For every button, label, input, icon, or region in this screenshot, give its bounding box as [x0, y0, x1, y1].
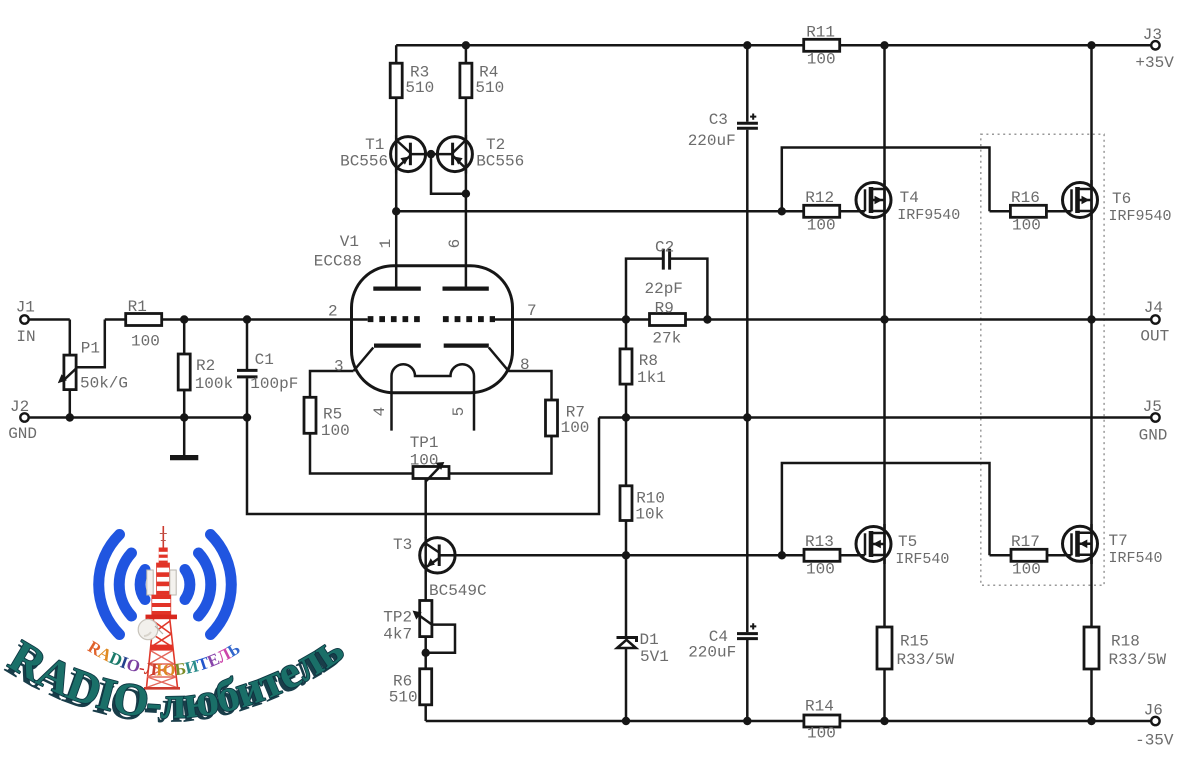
svg-text:IRF540: IRF540 [895, 551, 949, 568]
wire gate rail 2 [626, 554, 865, 557]
junction node gate1 R12 [778, 207, 786, 215]
wire C4 column [746, 418, 749, 722]
wire J1 stub [29, 318, 70, 321]
wire T6/T7 column [1090, 45, 1093, 721]
mosfet T5 IRF540 [840, 524, 891, 564]
svg-text:IRF9540: IRF9540 [1109, 208, 1172, 225]
wire gate rail 1 [396, 210, 865, 213]
capacitor C2 [663, 249, 669, 270]
svg-text:R1: R1 [128, 298, 147, 316]
tube anode plates [373, 287, 489, 291]
svg-text:T4: T4 [900, 189, 919, 207]
junction node top R4 [462, 41, 470, 49]
junction node T2 collector [462, 190, 470, 198]
junction node out T4T5 [880, 315, 888, 323]
svg-text:IRF9540: IRF9540 [897, 207, 960, 224]
wire TP2 to bottom rail [424, 637, 427, 721]
wire C1 column lower + GND detour [247, 378, 599, 514]
svg-text:510: 510 [389, 689, 418, 707]
svg-text:5V1: 5V1 [640, 648, 669, 666]
resistor R8 [620, 349, 632, 384]
junction node out R8 [622, 315, 630, 323]
junction node TP2 R6 [422, 649, 430, 657]
svg-text:TP2: TP2 [383, 609, 412, 627]
resistor R16 [1010, 205, 1046, 217]
resistor R7 [546, 400, 558, 436]
svg-text:4: 4 [371, 407, 389, 417]
terminal J5 [1151, 413, 1159, 421]
svg-text:8: 8 [520, 356, 530, 374]
resistor R6 [420, 669, 432, 705]
resistor R13 [804, 549, 840, 561]
wire R2 column + ground stub [183, 320, 186, 456]
svg-text:100: 100 [807, 725, 836, 743]
resistor R5 [304, 397, 316, 433]
capacitor C4 [737, 634, 758, 639]
svg-text:OUT: OUT [1140, 328, 1169, 346]
svg-text:100: 100 [410, 452, 439, 470]
wire cathode diagonal right [489, 348, 509, 372]
junction node bot R15 [880, 717, 888, 725]
junction node gnd P1 [66, 413, 74, 421]
svg-text:V1: V1 [340, 233, 359, 251]
svg-text:100: 100 [807, 51, 836, 69]
svg-text:IRF540: IRF540 [1109, 550, 1163, 567]
svg-text:R12: R12 [805, 189, 834, 207]
junction node gate2 D1 [622, 551, 630, 559]
potentiometer P1 [64, 355, 76, 390]
wire C1 column upper [246, 320, 249, 370]
svg-text:J6: J6 [1144, 702, 1163, 720]
wire gate2 over-line to T7 [782, 463, 990, 555]
svg-text:R9: R9 [655, 300, 674, 318]
svg-text:ECC88: ECC88 [314, 253, 362, 271]
junction node gate2 R13 [778, 551, 786, 559]
junction node bot R18 [1087, 717, 1095, 725]
junction node out R2 [180, 315, 188, 323]
svg-text:7: 7 [527, 302, 537, 320]
junction node gnd C3C4 [743, 413, 751, 421]
svg-text:J5: J5 [1143, 398, 1162, 416]
terminal J1 [20, 315, 28, 323]
wire C3 column [746, 45, 749, 417]
svg-text:100: 100 [1012, 217, 1041, 235]
wire R8/R10 column [625, 320, 628, 638]
svg-text:BC556: BC556 [476, 153, 524, 171]
wire top +35V rail [396, 44, 1151, 47]
svg-text:T3: T3 [393, 536, 412, 554]
LOGO: radio tower [138, 526, 180, 688]
wire R17 to T7 gate [990, 554, 1072, 557]
transistor T1 [391, 135, 426, 174]
svg-text:100: 100 [561, 419, 590, 437]
svg-text:R17: R17 [1011, 533, 1040, 551]
terminal J4 [1151, 315, 1159, 323]
resistor R12 [804, 205, 840, 217]
svg-text:GND: GND [8, 425, 37, 443]
svg-text:-35V: -35V [1135, 732, 1174, 750]
svg-text:R16: R16 [1011, 189, 1040, 207]
trimmer TP2 [420, 601, 432, 637]
wire GND rail left [29, 416, 247, 419]
junction node gate1 pin1 [392, 207, 400, 215]
svg-text:J2: J2 [10, 398, 29, 416]
ground bar symbol [170, 455, 198, 460]
dotted selection box around T6/R16/T7/R17 [981, 134, 1104, 585]
wire cathode diagonal left [354, 348, 374, 372]
transistor T2 [437, 135, 472, 174]
svg-text:1k1: 1k1 [637, 369, 666, 387]
svg-text:1: 1 [377, 239, 395, 249]
svg-text:100: 100 [321, 422, 350, 440]
resistor R11 [804, 39, 840, 51]
zener diode D1 [617, 638, 637, 643]
junction node top C3 [743, 41, 751, 49]
terminal J6 [1151, 717, 1159, 725]
svg-text:P1: P1 [81, 340, 100, 358]
svg-text:R33/5W: R33/5W [897, 651, 955, 669]
svg-text:T2: T2 [486, 136, 505, 154]
wire input rail to tube grid [105, 318, 368, 321]
wire TP1 wiper drop to T3 [424, 479, 427, 539]
wire gate1 over-line to T6 [782, 148, 990, 212]
svg-text:2: 2 [328, 303, 338, 321]
LOGO: radio waves blue arcs [99, 535, 232, 635]
svg-text:R14: R14 [805, 698, 834, 716]
svg-text:50k/G: 50k/G [80, 375, 128, 393]
svg-text:100: 100 [806, 561, 835, 579]
svg-text:C2: C2 [655, 239, 674, 257]
junction node bot D1 [622, 717, 630, 725]
wire below D1 [625, 648, 628, 721]
svg-text:100k: 100k [195, 375, 233, 393]
wire R7 pin8 loop [449, 371, 552, 474]
svg-text:TP1: TP1 [410, 434, 439, 452]
svg-text:R18: R18 [1111, 633, 1140, 651]
wire T1/T2 base tie [410, 153, 452, 156]
svg-text:27k: 27k [652, 330, 681, 348]
svg-text:R15: R15 [900, 633, 929, 651]
wire R16 to T6 gate [990, 210, 1072, 213]
wire R5 pin3 loop [310, 371, 413, 474]
junction node out T6T7 [1087, 315, 1095, 323]
junction node out C1 [243, 315, 251, 323]
junction node top T6 [1087, 41, 1095, 49]
svg-text:C1: C1 [255, 351, 274, 369]
svg-text:T1: T1 [365, 136, 384, 154]
transistor T3 [420, 537, 455, 574]
resistor R1 [126, 314, 162, 326]
svg-text:C3: C3 [709, 111, 728, 129]
wire OUT rail from tube to J4 [495, 318, 1151, 321]
wire C2 loop [626, 259, 707, 320]
svg-text:T5: T5 [898, 533, 917, 551]
wire T3 base line [439, 554, 626, 557]
svg-text:+35V: +35V [1135, 54, 1174, 72]
svg-text:22pF: 22pF [645, 280, 683, 298]
svg-text:IN: IN [16, 328, 35, 346]
tube grids (dashed) [368, 316, 420, 322]
tube V1 envelope [352, 266, 513, 393]
svg-text:BC556: BC556 [340, 153, 388, 171]
resistor R17 [1011, 549, 1047, 561]
svg-text:220uF: 220uF [688, 132, 736, 150]
junction node out C2 [703, 315, 711, 323]
capacitor C1 [237, 370, 258, 377]
junction node bot C4 [743, 717, 751, 725]
wire GND rail right [599, 416, 1151, 419]
svg-text:510: 510 [475, 79, 504, 97]
svg-text:J4: J4 [1144, 299, 1163, 317]
svg-text:510: 510 [405, 79, 434, 97]
svg-text:J3: J3 [1143, 26, 1162, 44]
junction node T1T2 bases [427, 150, 435, 158]
resistor R3 [390, 63, 402, 97]
svg-text:4k7: 4k7 [383, 626, 412, 644]
junction node gnd C1 [243, 413, 251, 421]
svg-text:R13: R13 [805, 533, 834, 551]
junction node top T4 [880, 41, 888, 49]
terminal J2 [20, 413, 28, 421]
wire P1 wiper riser [76, 320, 105, 368]
mosfet T6 IRF9540 [1063, 180, 1098, 220]
svg-text:R11: R11 [806, 24, 835, 42]
svg-text:100: 100 [1012, 561, 1041, 579]
wire TP2 side loop [426, 625, 455, 653]
svg-text:R2: R2 [196, 357, 215, 375]
mosfet T7 IRF540 [1063, 524, 1098, 564]
terminal J3 [1151, 41, 1159, 49]
junction node gnd R8R10 [622, 413, 630, 421]
resistor R4 [460, 63, 472, 97]
svg-text:T7: T7 [1109, 532, 1128, 550]
svg-text:100pF: 100pF [250, 375, 298, 393]
svg-text:T6: T6 [1112, 190, 1131, 208]
svg-text:6: 6 [446, 239, 464, 249]
wire T4/T5 column [883, 45, 886, 721]
resistor R9 [650, 314, 686, 326]
junction node gnd R2 [180, 413, 188, 421]
tube heater [392, 364, 475, 430]
resistor R10 [620, 486, 632, 521]
mosfet T4 IRF9540 [840, 180, 891, 220]
svg-text:3: 3 [334, 358, 344, 376]
resistor R18 [1084, 627, 1099, 669]
wire bottom -35V rail [426, 720, 1151, 723]
capacitor C3 [737, 123, 758, 128]
resistor R2 [178, 354, 190, 390]
resistor R14 [804, 715, 840, 727]
svg-text:J1: J1 [16, 299, 35, 317]
tube cathode plates [374, 344, 489, 348]
svg-text:100: 100 [807, 217, 836, 235]
svg-text:R5: R5 [323, 406, 342, 424]
svg-text:5: 5 [450, 407, 468, 417]
wire P1 column [69, 320, 72, 418]
svg-text:D1: D1 [640, 631, 659, 649]
svg-text:R33/5W: R33/5W [1109, 651, 1167, 669]
svg-text:GND: GND [1139, 427, 1168, 445]
wire T3 to TP2 [424, 572, 427, 600]
wire base-to-collector drop [431, 154, 466, 194]
svg-text:R8: R8 [639, 352, 658, 370]
trimmer TP1 [413, 467, 449, 479]
svg-text:220uF: 220uF [688, 644, 736, 662]
resistor R15 [877, 627, 892, 669]
wire R3 branch / T1 column / tube pin 1 [395, 45, 398, 287]
wire R4 branch / T2 column / tube pin 6 [465, 45, 468, 287]
svg-text:10k: 10k [635, 506, 664, 524]
svg-text:BC549C: BC549C [429, 582, 487, 600]
svg-text:100: 100 [131, 333, 160, 351]
